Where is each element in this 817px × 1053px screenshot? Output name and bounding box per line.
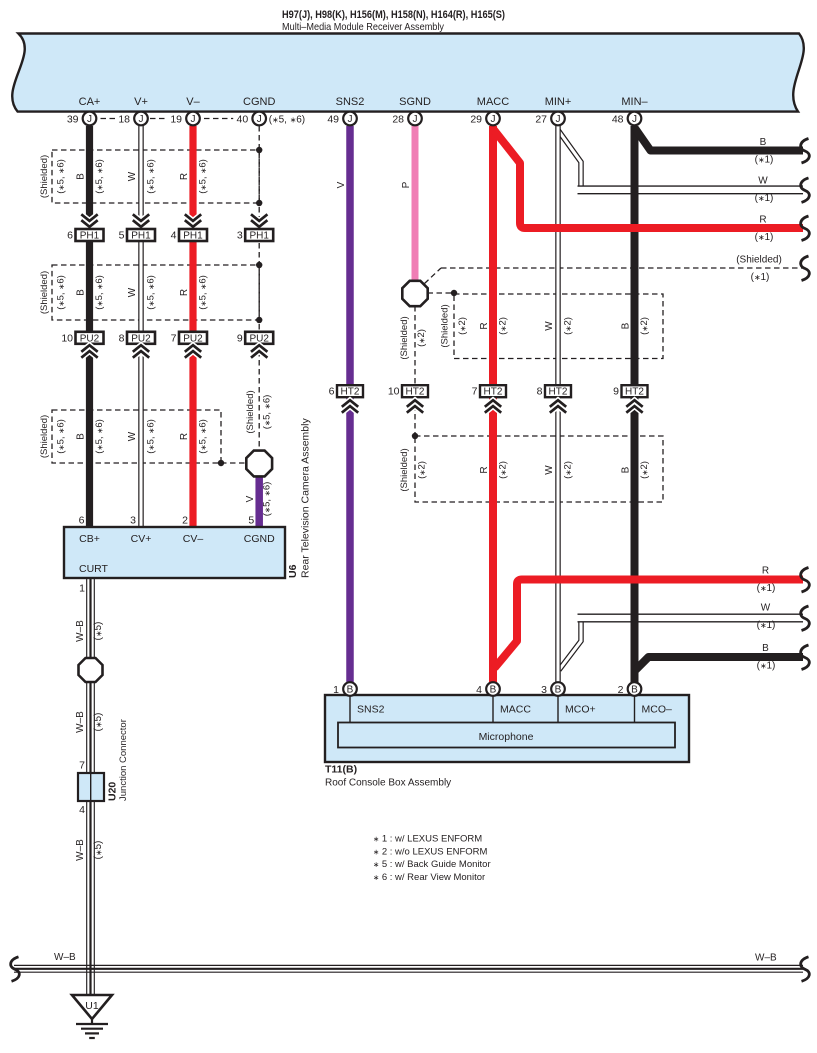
svg-text:R: R xyxy=(759,215,766,226)
svg-text:HT2: HT2 xyxy=(625,387,644,398)
svg-text:(Shielded): (Shielded) xyxy=(245,390,256,433)
svg-text:29: 29 xyxy=(470,114,482,126)
svg-text:(∗2): (∗2) xyxy=(416,329,427,347)
svg-text:R: R xyxy=(179,289,190,296)
svg-text:B: B xyxy=(621,466,632,473)
svg-text:J: J xyxy=(191,114,196,125)
svg-text:W: W xyxy=(544,465,555,475)
svg-text:(∗1): (∗1) xyxy=(755,232,774,243)
svg-text:CA+: CA+ xyxy=(79,96,101,108)
svg-text:6: 6 xyxy=(67,230,73,242)
svg-text:(∗5, ∗6): (∗5, ∗6) xyxy=(262,482,273,517)
svg-text:P: P xyxy=(401,181,412,188)
svg-text:PH1: PH1 xyxy=(131,231,151,242)
svg-text:6: 6 xyxy=(79,515,85,527)
svg-text:(∗2): (∗2) xyxy=(457,317,468,335)
svg-text:J: J xyxy=(257,114,262,125)
svg-text:B: B xyxy=(75,289,86,296)
svg-text:U1: U1 xyxy=(85,1000,99,1012)
svg-text:J: J xyxy=(556,114,561,125)
svg-text:J: J xyxy=(139,114,144,125)
svg-text:Microphone: Microphone xyxy=(479,731,534,743)
svg-text:R: R xyxy=(179,433,190,440)
svg-text:(Shielded): (Shielded) xyxy=(39,155,50,198)
svg-text:6: 6 xyxy=(329,386,335,398)
svg-text:7: 7 xyxy=(79,760,85,772)
svg-text:3: 3 xyxy=(541,684,547,696)
svg-text:8: 8 xyxy=(537,386,543,398)
svg-text:Multi–Media Module Receiver As: Multi–Media Module Receiver Assembly xyxy=(282,21,445,33)
svg-text:7: 7 xyxy=(171,332,177,344)
svg-text:(∗1): (∗1) xyxy=(757,661,776,672)
svg-text:R: R xyxy=(479,466,490,473)
svg-text:V: V xyxy=(336,181,347,188)
svg-text:J: J xyxy=(413,114,418,125)
svg-text:HT2: HT2 xyxy=(484,387,503,398)
svg-text:PH1: PH1 xyxy=(249,231,269,242)
svg-text:MIN+: MIN+ xyxy=(545,96,572,108)
svg-text:(Shielded): (Shielded) xyxy=(440,304,451,347)
svg-text:(∗5, ∗6): (∗5, ∗6) xyxy=(56,275,67,310)
svg-text:Junction Connector: Junction Connector xyxy=(118,719,129,801)
svg-text:W–B: W–B xyxy=(54,952,76,963)
svg-text:CGND: CGND xyxy=(244,533,275,545)
svg-text:MCO+: MCO+ xyxy=(565,704,596,716)
svg-text:W: W xyxy=(127,171,138,181)
svg-text:J: J xyxy=(491,114,496,125)
svg-text:10: 10 xyxy=(61,332,73,344)
svg-text:48: 48 xyxy=(612,114,624,126)
svg-text:1: 1 xyxy=(333,684,339,696)
svg-text:(∗5, ∗6): (∗5, ∗6) xyxy=(56,159,67,194)
svg-text:(∗5, ∗6): (∗5, ∗6) xyxy=(145,159,156,194)
svg-text:W: W xyxy=(544,321,555,331)
svg-text:W: W xyxy=(761,603,771,614)
svg-text:(∗2): (∗2) xyxy=(563,461,574,479)
svg-text:R: R xyxy=(479,322,490,329)
svg-text:27: 27 xyxy=(535,114,547,126)
svg-text:1: 1 xyxy=(79,583,85,595)
svg-text:B: B xyxy=(631,685,638,696)
svg-text:(∗5): (∗5) xyxy=(93,622,104,641)
svg-text:4: 4 xyxy=(476,684,482,696)
svg-text:SGND: SGND xyxy=(399,96,431,108)
svg-text:J: J xyxy=(87,114,92,125)
svg-text:(∗5): (∗5) xyxy=(93,841,104,860)
svg-text:W–B: W–B xyxy=(75,839,86,861)
svg-text:(∗5, ∗6): (∗5, ∗6) xyxy=(145,419,156,454)
svg-text:W: W xyxy=(127,431,138,441)
svg-text:PH1: PH1 xyxy=(80,231,100,242)
svg-text:SNS2: SNS2 xyxy=(357,704,385,716)
svg-text:B: B xyxy=(555,685,562,696)
svg-text:CGND: CGND xyxy=(243,96,275,108)
svg-text:Rear Television Camera Assembl: Rear Television Camera Assembly xyxy=(300,418,312,578)
svg-text:39: 39 xyxy=(67,114,79,126)
svg-text:(∗5, ∗6): (∗5, ∗6) xyxy=(262,395,273,430)
svg-text:HT2: HT2 xyxy=(406,387,425,398)
svg-text:W–B: W–B xyxy=(75,620,86,642)
svg-text:(∗1): (∗1) xyxy=(751,272,770,283)
svg-text:7: 7 xyxy=(472,386,478,398)
svg-text:MCO–: MCO– xyxy=(642,704,672,716)
svg-text:PH1: PH1 xyxy=(183,231,203,242)
svg-text:2: 2 xyxy=(182,515,188,527)
svg-text:4: 4 xyxy=(79,804,85,816)
svg-text:HT2: HT2 xyxy=(341,387,360,398)
svg-text:(∗5, ∗6): (∗5, ∗6) xyxy=(269,115,305,126)
svg-text:CV+: CV+ xyxy=(131,533,152,545)
svg-text:W: W xyxy=(127,287,138,297)
svg-text:U6: U6 xyxy=(287,564,299,578)
svg-text:(∗1): (∗1) xyxy=(757,583,776,594)
svg-text:(∗2): (∗2) xyxy=(639,461,650,479)
svg-text:2: 2 xyxy=(618,684,624,696)
svg-text:T11(B): T11(B) xyxy=(325,764,357,776)
svg-text:5: 5 xyxy=(119,230,125,242)
svg-text:B: B xyxy=(75,173,86,180)
svg-text:(Shielded): (Shielded) xyxy=(39,415,50,458)
svg-text:40: 40 xyxy=(237,114,249,126)
svg-text:W–B: W–B xyxy=(75,711,86,733)
svg-text:(∗5, ∗6): (∗5, ∗6) xyxy=(94,159,105,194)
svg-text:CV–: CV– xyxy=(183,533,204,545)
svg-text:(∗2): (∗2) xyxy=(417,461,428,479)
svg-text:(∗1): (∗1) xyxy=(755,155,774,166)
svg-text:(∗5, ∗6): (∗5, ∗6) xyxy=(197,275,208,310)
svg-text:J: J xyxy=(348,114,353,125)
svg-text:(∗5, ∗6): (∗5, ∗6) xyxy=(94,275,105,310)
svg-text:(∗2): (∗2) xyxy=(563,317,574,335)
svg-text:(∗1): (∗1) xyxy=(755,193,774,204)
svg-text:J: J xyxy=(632,114,637,125)
svg-text:8: 8 xyxy=(119,332,125,344)
svg-text:(∗5, ∗6): (∗5, ∗6) xyxy=(94,419,105,454)
svg-text:(∗2): (∗2) xyxy=(639,317,650,335)
svg-text:MACC: MACC xyxy=(477,96,509,108)
svg-text:(∗2): (∗2) xyxy=(498,317,509,335)
svg-text:(Shielded): (Shielded) xyxy=(736,255,782,266)
svg-text:R: R xyxy=(179,173,190,180)
svg-text:B: B xyxy=(75,433,86,440)
svg-text:49: 49 xyxy=(327,114,339,126)
svg-text:3: 3 xyxy=(130,515,136,527)
svg-text:∗ 6 : w/ Rear View Monitor: ∗ 6 : w/ Rear View Monitor xyxy=(373,872,485,883)
svg-text:(∗1): (∗1) xyxy=(757,620,776,631)
svg-text:(Shielded): (Shielded) xyxy=(399,316,410,359)
svg-text:V–: V– xyxy=(186,96,200,108)
svg-text:(Shielded): (Shielded) xyxy=(39,271,50,314)
svg-text:9: 9 xyxy=(237,332,243,344)
svg-text:U20: U20 xyxy=(107,782,119,801)
svg-text:SNS2: SNS2 xyxy=(336,96,365,108)
svg-text:H97(J), H98(K), H156(M), H158(: H97(J), H98(K), H156(M), H158(N), H164(R… xyxy=(282,9,505,21)
svg-text:9: 9 xyxy=(613,386,619,398)
svg-text:∗ 2 : w/o LEXUS ENFORM: ∗ 2 : w/o LEXUS ENFORM xyxy=(373,846,488,857)
svg-text:3: 3 xyxy=(237,230,243,242)
svg-text:(Shielded): (Shielded) xyxy=(399,448,410,491)
svg-text:(∗5, ∗6): (∗5, ∗6) xyxy=(145,275,156,310)
svg-text:CURT: CURT xyxy=(79,563,109,575)
svg-text:∗ 1 : w/ LEXUS ENFORM: ∗ 1 : w/ LEXUS ENFORM xyxy=(373,834,482,845)
svg-text:MIN–: MIN– xyxy=(621,96,648,108)
svg-text:∗ 5 : w/ Back Guide Monitor: ∗ 5 : w/ Back Guide Monitor xyxy=(373,859,491,870)
svg-text:(∗5, ∗6): (∗5, ∗6) xyxy=(56,419,67,454)
svg-text:W: W xyxy=(758,176,768,187)
svg-text:(∗5): (∗5) xyxy=(93,713,104,732)
svg-text:V: V xyxy=(245,495,256,502)
svg-text:B: B xyxy=(621,322,632,329)
svg-text:MACC: MACC xyxy=(500,704,531,716)
svg-text:5: 5 xyxy=(248,515,254,527)
svg-text:V+: V+ xyxy=(134,96,148,108)
svg-text:Roof Console Box Assembly: Roof Console Box Assembly xyxy=(325,778,451,789)
svg-text:B: B xyxy=(490,685,497,696)
svg-text:B: B xyxy=(760,137,767,148)
svg-text:W–B: W–B xyxy=(755,953,777,964)
svg-text:19: 19 xyxy=(170,114,182,126)
svg-text:B: B xyxy=(347,685,354,696)
svg-text:10: 10 xyxy=(388,386,400,398)
svg-text:(∗5, ∗6): (∗5, ∗6) xyxy=(197,159,208,194)
svg-text:R: R xyxy=(762,566,769,577)
svg-text:B: B xyxy=(762,643,769,654)
svg-text:4: 4 xyxy=(171,230,177,242)
svg-text:18: 18 xyxy=(118,114,130,126)
svg-text:(∗5, ∗6): (∗5, ∗6) xyxy=(197,419,208,454)
svg-text:CB+: CB+ xyxy=(79,533,100,545)
svg-text:(∗2): (∗2) xyxy=(498,461,509,479)
svg-text:HT2: HT2 xyxy=(549,387,568,398)
svg-text:28: 28 xyxy=(392,114,404,126)
